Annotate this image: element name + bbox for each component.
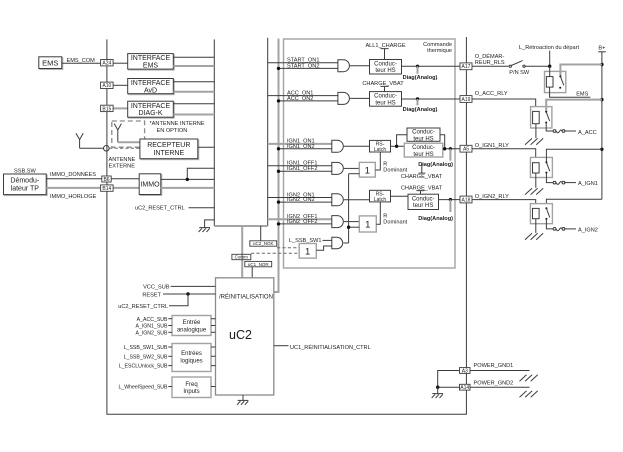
svg-text:L_ESCLUnlock_SUB: L_ESCLUnlock_SUB [119, 364, 168, 370]
wire IGN1_OFF1 [268, 165, 332, 167]
svg-text:L_SSB_SW1_SUB: L_SSB_SW1_SUB [124, 345, 168, 351]
svg-text:A_IGN1_SUB: A_IGN1_SUB [135, 324, 168, 330]
wire ACC contact to A_ACC [546, 123, 553, 132]
wire internal antenna to receiver [118, 141, 140, 143]
wire dashed Comm to OR [251, 252, 299, 254]
svg-text:teur HS: teur HS [375, 100, 395, 106]
svg-text:POWER_GND1: POWER_GND1 [474, 363, 514, 369]
switch P/N SW [509, 65, 511, 67]
box Demodulateur TP [4, 174, 47, 195]
pin B6 [102, 176, 111, 182]
driver Conduc-teur HS (IGN2) [408, 194, 439, 209]
wire IGN2 contact to A_IGN2 [546, 219, 553, 229]
contact IGN1 relay [545, 161, 547, 163]
svg-text:1: 1 [305, 246, 310, 257]
svg-text:Comm: Comm [235, 255, 249, 260]
svg-text:A5: A5 [463, 147, 469, 153]
svg-text:UC1_RÉINITIALISATION_CTRL: UC1_RÉINITIALISATION_CTRL [290, 344, 371, 351]
wire external antenna to connector node [80, 147, 104, 149]
svg-text:POWER_GND2: POWER_GND2 [474, 380, 514, 386]
svg-text:teur HS: teur HS [375, 68, 395, 74]
svg-text:Diag(Analog): Diag(Analog) [418, 162, 453, 168]
driver Conduc-teur HS (ACC) [370, 92, 402, 107]
wire IGN2 coil to ground [535, 219, 537, 233]
svg-text:ALL1_CHARGE: ALL1_CHARGE [365, 43, 405, 49]
svg-text:Dominant: Dominant [383, 167, 407, 173]
wire pin A19 to ACC relay [472, 99, 536, 107]
wire L_SSB branch into IGN1 OR [349, 173, 360, 175]
svg-text:L_SSB_SW2_SUB: L_SSB_SW2_SUB [124, 354, 168, 360]
ground ACC relay [525, 138, 532, 144]
wire L_SSB gate output rail [344, 174, 349, 243]
wire power ground pins common [438, 371, 460, 388]
wire INTERFACE AvD to uC1 (2) [173, 91, 214, 93]
pin A14 [460, 384, 471, 390]
wire ACC_ON2 [279, 100, 338, 102]
wire ACC gate to driver [350, 97, 370, 99]
svg-text:O_IGN2_RLY: O_IGN2_RLY [475, 194, 509, 200]
svg-text:Entrées: Entrées [181, 351, 202, 357]
svg-text:Freq: Freq [185, 382, 197, 388]
stub Diag ACC [417, 99, 419, 105]
box Entree analogique [172, 316, 211, 336]
wire START_ON1 [268, 62, 338, 64]
svg-text:L_Rétroaction du départ: L_Rétroaction du départ [519, 45, 579, 51]
stub Diag IGN1 [449, 149, 451, 161]
box uC2_NOK [250, 241, 277, 246]
antenna external [76, 133, 83, 148]
svg-text:INTERFACE: INTERFACE [131, 80, 171, 87]
wire dashed uC2_NOK to OR [277, 247, 299, 249]
svg-text:A10: A10 [102, 83, 111, 89]
svg-text:A24: A24 [102, 61, 111, 67]
wires Entrees logiques to uC2 [211, 347, 216, 366]
and-gate START [338, 60, 349, 72]
and-gate L_SSB [332, 237, 343, 248]
svg-text:REUR_RLS: REUR_RLS [475, 60, 505, 66]
ground IGN1 relay [525, 188, 532, 194]
wire uC1 to uC2_NOK box [260, 226, 262, 241]
svg-text:INTERNE: INTERNE [153, 150, 184, 157]
svg-text:B14: B14 [102, 186, 111, 192]
svg-text:INTERFACE: INTERFACE [131, 55, 171, 62]
ground POWER_GND1 [520, 375, 527, 381]
contact ACC relay [545, 111, 547, 113]
pin A19 [460, 96, 472, 103]
svg-text:O_ACC_RLY: O_ACC_RLY [475, 91, 508, 97]
svg-text:RESET: RESET [142, 292, 161, 298]
wire starter relay contact to B+ [560, 65, 602, 76]
svg-text:DIAG-K: DIAG-K [138, 110, 162, 117]
net CHARGE_VBAT label and stub (IGN1) [418, 163, 425, 173]
svg-text:A17: A17 [462, 64, 471, 70]
latch RS IGN2 [370, 190, 391, 202]
box uC1_NOR [245, 261, 272, 266]
svg-text:A_IGN2_SUB: A_IGN2_SUB [135, 330, 168, 336]
svg-text:uC2_RESET_CTRL: uC2_RESET_CTRL [135, 205, 185, 211]
svg-text:A_ACC: A_ACC [578, 130, 597, 136]
relay ACC (coil+contact) [531, 107, 552, 128]
svg-text:*ANTENNE INTERNE: *ANTENNE INTERNE [150, 121, 205, 127]
or-gate 1 (L_SSB) [299, 244, 316, 259]
uC2 block [216, 278, 274, 395]
pin B15 [101, 105, 114, 111]
wire IGN1 coil to ground [535, 173, 537, 188]
contact IGN2 relay [545, 207, 547, 209]
wire OR L_SSB to gate [316, 246, 332, 250]
box INTERFACE EMS [128, 54, 174, 70]
driver Conduc-teur HS (START) [370, 60, 402, 75]
svg-text:teur HS: teur HS [413, 203, 433, 209]
wire IMMO_HORLOGE [46, 187, 139, 189]
and-gate ACC [338, 92, 350, 104]
wire INTERFACE DIAG-K to uC1 (1) [173, 103, 214, 105]
svg-text:SSB.SW: SSB.SW [14, 168, 36, 174]
svg-text:uC2_NOK: uC2_NOK [253, 241, 274, 246]
box RECEPTEUR INTERNE [140, 139, 198, 159]
svg-text:Démodu-: Démodu- [10, 177, 39, 184]
wire INTERFACE AvD to uC1 (1) [173, 81, 214, 83]
svg-text:Diag(Analog): Diag(Analog) [403, 107, 438, 113]
wire B+ rail to IGN2 relay contact [546, 199, 602, 208]
svg-text:A3: A3 [462, 368, 468, 374]
wire IMMO_DONNEES [46, 178, 139, 180]
wire driver START to pin A17 [402, 65, 461, 67]
wire pin A17 to P/N switch [472, 65, 509, 67]
wire IGN1_ON2 [279, 148, 332, 150]
wire pin A24 to INTERFACE EMS [113, 62, 128, 64]
stub Diag START [417, 66, 419, 74]
relay IGN1 (coil+contact) [530, 157, 552, 177]
wire IMMO output to uC1 [161, 168, 215, 179]
wire IMMO clock to uC1 [161, 187, 215, 189]
wire pin B15 to INTERFACE DIAG-K [113, 107, 128, 109]
wire L_SSB branch into IGN2 OR [349, 226, 360, 228]
block Commande thermique (high-side driver block) [284, 39, 456, 268]
pin A10 [101, 82, 114, 88]
wire INTERFACE EMS to uC1 (2) [173, 65, 214, 67]
wire IGN2_ON1 [268, 197, 332, 199]
svg-text:A19: A19 [462, 97, 471, 103]
and-gate IGN2 off [332, 216, 344, 228]
node antenna connector (open circle) [104, 146, 110, 152]
pin B14 [101, 185, 114, 191]
latch RS IGN1 [370, 140, 391, 152]
relay starter (coil+contact) [545, 71, 566, 92]
antenna internal (optional) [114, 124, 121, 143]
box Entrees logiques [172, 344, 211, 372]
wire uC2_RESET_CTRL to RESET [169, 294, 188, 306]
wire uC2_RESET_CTRL to uC1 [189, 207, 215, 209]
svg-text:Conduc-: Conduc- [412, 130, 435, 136]
wire IGN1 contact to A_IGN1 [546, 173, 553, 183]
and-gate IGN1 on [332, 140, 344, 152]
svg-text:RECEPTEUR: RECEPTEUR [147, 142, 190, 149]
svg-text:thermique: thermique [427, 48, 452, 54]
svg-text:uC2_RESET_CTRL: uC2_RESET_CTRL [118, 304, 168, 310]
svg-text:teur HS: teur HS [413, 152, 433, 158]
wire drivers IGN1 to pin A5 [440, 135, 460, 149]
svg-text:Conduc-: Conduc- [412, 196, 435, 202]
svg-text:EXTERNE: EXTERNE [109, 164, 136, 170]
svg-text:A14: A14 [460, 385, 469, 391]
svg-text:IMMO_HORLOGE: IMMO_HORLOGE [50, 194, 97, 200]
wire RECEPTEUR INTERNE to uC1 [198, 146, 215, 148]
wire RESET [163, 293, 216, 295]
wire INTERFACE EMS to uC1 (1) [173, 56, 214, 58]
wire EMS to pin A24 [62, 62, 101, 64]
wire pin A5 to IGN1 relay [472, 149, 536, 163]
svg-text:A_IGN2: A_IGN2 [578, 228, 598, 234]
svg-text:lateur TP: lateur TP [11, 186, 40, 193]
svg-text:B+: B+ [598, 45, 605, 51]
pin A17 [460, 63, 472, 70]
wire Freq Inputs to uC2 [211, 386, 216, 388]
wire IGN1 OR to RS reset [375, 152, 380, 170]
wire pin A14 right to chassis ground [470, 386, 530, 388]
svg-text:Dominant: Dominant [383, 219, 407, 225]
svg-text:analogique: analogique [177, 327, 207, 333]
net UC1_REINITIALISATION_CTRL label and wire [274, 345, 289, 347]
wire ACC relay contact to B+ [546, 100, 602, 112]
wire B+ rail [601, 52, 603, 200]
wire pin A10 to INTERFACE AvD [113, 84, 128, 86]
pin A3 [460, 368, 471, 374]
pin A5 [460, 145, 472, 152]
wire pin A3 right to chassis ground [470, 370, 530, 372]
pin A18 [460, 196, 472, 203]
box Comm [232, 254, 251, 259]
svg-text:IMMO_DONNÉES: IMMO_DONNÉES [50, 171, 96, 178]
ground POWER_GND2 [520, 391, 527, 397]
wire IGN2 OR to RS reset [376, 202, 380, 224]
or-gate 1 (IGN2 R) [359, 216, 376, 232]
svg-text:1: 1 [365, 165, 370, 176]
svg-text:CHARGE_VBAT: CHARGE_VBAT [401, 174, 443, 180]
svg-text:B6: B6 [103, 177, 109, 183]
wire IGN1 relay contact to B+ [546, 149, 602, 162]
wire IGN2_ON2 [279, 201, 332, 203]
wire dashed node to receiver [109, 147, 140, 149]
wire pin A18 to IGN2 relay [472, 200, 536, 209]
stub Diag IGN2 [449, 200, 451, 212]
wire IGN1 gate to RS-latch [344, 145, 370, 147]
driver Conduc-teur HS (IGN1 ch2, shadow) [404, 143, 443, 157]
svg-text:AvD: AvD [144, 87, 157, 94]
wire ACC coil to ground [535, 124, 537, 138]
svg-text:EMS: EMS [576, 92, 588, 98]
svg-text:Conduc-: Conduc- [374, 94, 397, 100]
and-gate IGN1 off [332, 162, 344, 174]
ground at uC2 bottom [242, 395, 244, 400]
pin A24 [101, 60, 114, 66]
box INTERFACE AvD [128, 79, 174, 94]
wire VCC_SUB [171, 285, 216, 287]
svg-text:A18: A18 [462, 197, 471, 203]
wire IGN1 off gate to OR [344, 167, 360, 169]
svg-text:logiques: logiques [180, 358, 202, 364]
svg-text:1: 1 [365, 220, 370, 231]
svg-text:Conduc-: Conduc- [412, 145, 435, 151]
svg-text:O_DÉMAR-: O_DÉMAR- [475, 53, 505, 60]
svg-text:Diag(Analog): Diag(Analog) [418, 216, 453, 222]
wire IGN2_OFF2 [279, 223, 332, 225]
dashed option box (internal antenna) [112, 121, 145, 147]
wire driver IGN2 to pin A18 [439, 199, 461, 201]
wires Entree analogique to uC2 [211, 319, 216, 333]
wire uC1_NOR to uC2 [251, 267, 253, 278]
svg-text:uC1_NOR: uC1_NOR [248, 262, 270, 267]
wire IGN2 off gate to OR [344, 221, 360, 223]
svg-text:Diag(Analog): Diag(Analog) [403, 75, 438, 81]
svg-text:Entrée: Entrée [183, 320, 201, 326]
driver Conduc-teur HS (IGN1 ch1) [407, 128, 440, 141]
svg-text:IMMO: IMMO [140, 182, 160, 189]
uC1 block [214, 38, 267, 226]
wire ACC_ON1 [268, 95, 338, 97]
relay IGN2 (coil+contact) [530, 204, 552, 224]
wire IGN2_OFF1 [268, 218, 332, 220]
wire IGN1_OFF2 [279, 170, 332, 172]
wire RS-latch IGN2 to driver [391, 195, 409, 197]
wire IGN1_ON1 [268, 143, 332, 145]
svg-text:uC2: uC2 [229, 328, 252, 342]
wire L_SSB_SW1 to gate [323, 239, 332, 241]
svg-text:teur HS: teur HS [413, 136, 433, 142]
svg-text:Conduc-: Conduc- [374, 61, 397, 67]
wire RS-latch IGN1 to drivers [391, 135, 408, 147]
box INTERFACE DIAG-K [128, 101, 174, 117]
wire START_ON2 [279, 67, 338, 69]
svg-text:B15: B15 [102, 106, 111, 112]
ground at uC1 bottom-left [205, 220, 215, 228]
wire IGN2 gate to RS-latch [344, 199, 370, 201]
svg-text:EMS: EMS [42, 58, 58, 67]
wire INTERFACE DIAG-K to uC1 (2) [173, 114, 214, 116]
wire P/N switch to starter relay node [525, 65, 550, 67]
wire uC1 to uC2 (gray) [241, 226, 243, 278]
and-gate IGN2 on [332, 194, 344, 206]
wire START gate to driver [350, 65, 370, 67]
box EMS (engine ECU) [39, 57, 62, 69]
wire driver ACC to pin A19 [402, 98, 461, 100]
wire starter coil to EMS net [550, 87, 591, 97]
svg-text:ANTENNE: ANTENNE [109, 157, 136, 163]
svg-text:VCC_SUB: VCC_SUB [143, 285, 170, 291]
box Freq Inputs [172, 377, 211, 398]
svg-text:INTERFACE: INTERFACE [131, 103, 171, 110]
ground IGN2 relay [525, 233, 532, 239]
or-gate 1 (IGN1 R) [359, 162, 375, 177]
box IMMO [139, 174, 161, 195]
svg-text:A_ACC_SUB: A_ACC_SUB [137, 317, 168, 323]
svg-text:A_IGN1: A_IGN1 [578, 181, 598, 187]
svg-text:Inputs: Inputs [183, 389, 199, 395]
svg-text:EN OPTION: EN OPTION [157, 128, 188, 134]
bus uC2 signals (gray vertical) [274, 39, 279, 292]
svg-text:EMS: EMS [143, 62, 159, 69]
svg-text:P/N SW: P/N SW [509, 70, 530, 76]
ground power common [437, 387, 439, 393]
svg-text:/RÉINITIALISATION: /RÉINITIALISATION [219, 293, 273, 300]
contact starter relay [559, 75, 561, 77]
outer ECU boundary box [107, 37, 467, 414]
svg-text:L_WheelSpeed_SUB: L_WheelSpeed_SUB [118, 385, 168, 391]
